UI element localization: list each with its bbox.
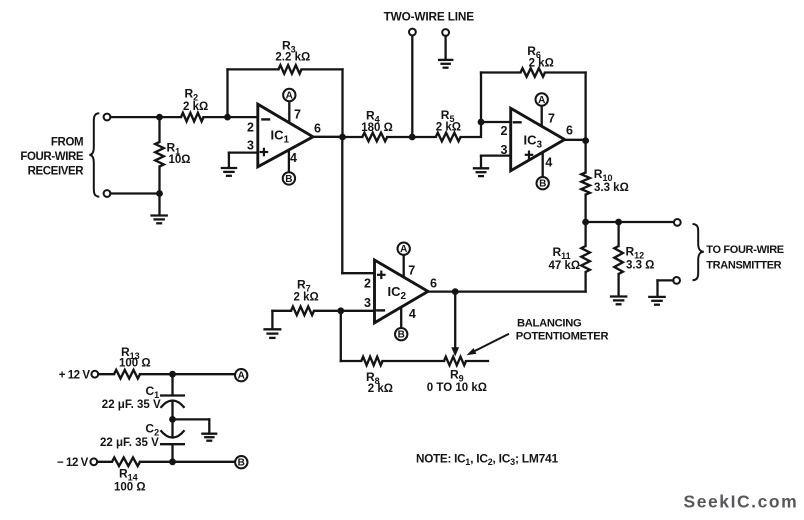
svg-text:6: 6: [314, 121, 321, 135]
svg-text:3.3 Ω: 3.3 Ω: [626, 260, 654, 272]
svg-text:B: B: [238, 458, 245, 469]
svg-text:NOTE: IC1, IC2, IC3; LM741: NOTE: IC1, IC2, IC3; LM741: [416, 451, 558, 467]
ground: [201, 433, 217, 435]
wire: [343, 136, 363, 138]
ground: [221, 167, 238, 169]
resistor R8: [361, 357, 382, 366]
wire: [111, 116, 182, 118]
wire: [480, 73, 482, 123]
node A at IC3: [536, 93, 548, 105]
pin 4 IC2: [400, 308, 402, 329]
wire: [171, 444, 173, 462]
svg-text:− 12 V: − 12 V: [57, 457, 89, 469]
minus sign IC3: [513, 121, 522, 123]
svg-text:A: A: [400, 244, 407, 255]
wire: [586, 221, 674, 223]
svg-text:A: A: [538, 95, 545, 106]
node junction C2 bottom: [169, 458, 176, 465]
node A at IC2: [398, 243, 410, 255]
node B power: [235, 456, 247, 468]
svg-text:FOUR-WIRE: FOUR-WIRE: [20, 151, 84, 163]
node A at IC1: [283, 89, 295, 101]
node junction IC1 inverting input: [224, 114, 231, 121]
terminal transmitter top: [674, 219, 681, 226]
ground: [438, 59, 454, 61]
plus sign IC3: [525, 154, 534, 156]
wire: [617, 274, 619, 296]
wire: [111, 192, 160, 194]
wire: [171, 419, 173, 437]
svg-text:7: 7: [548, 111, 555, 125]
resistor R13: [114, 370, 140, 379]
wire: [428, 290, 586, 292]
svg-text:2 kΩ: 2 kΩ: [294, 291, 319, 303]
svg-text:BALANCING: BALANCING: [517, 317, 582, 329]
node junction two-wire tap: [409, 134, 416, 141]
pin 7 IC2: [403, 255, 405, 277]
wire: [617, 222, 619, 246]
ground: [648, 296, 666, 298]
svg-text:2: 2: [364, 277, 371, 291]
svg-text:4: 4: [290, 151, 297, 165]
svg-text:7: 7: [408, 264, 415, 278]
resistor R4: [362, 133, 387, 142]
wire: [584, 222, 586, 246]
terminal -12V: [90, 458, 97, 465]
svg-text:2 kΩ: 2 kΩ: [529, 58, 554, 70]
svg-text:FROM: FROM: [51, 137, 83, 149]
op-amp IC2: [375, 260, 429, 323]
resistor R6: [521, 68, 546, 77]
wire: [341, 310, 375, 312]
wire: [314, 310, 341, 312]
op-amp IC3: [511, 108, 565, 170]
svg-text:2: 2: [501, 124, 508, 138]
svg-text:6: 6: [430, 277, 437, 291]
wire: [658, 279, 674, 281]
wire: [584, 272, 586, 292]
svg-text:22 μF. 35 V: 22 μF. 35 V: [100, 437, 159, 449]
svg-text:10Ω: 10Ω: [169, 154, 191, 166]
svg-text:0 TO 10 kΩ: 0 TO 10 kΩ: [427, 382, 487, 394]
svg-text:3: 3: [247, 139, 254, 153]
wire: [342, 272, 374, 274]
wiper arrow R9: [451, 347, 459, 356]
svg-text:A: A: [238, 371, 245, 382]
ground: [263, 328, 281, 330]
wire: [173, 418, 210, 420]
resistor R3: [279, 65, 302, 74]
wire: [98, 373, 114, 375]
wire: [228, 68, 279, 70]
node junction IC2 inverting input: [337, 307, 344, 314]
op-amp IC1: [258, 104, 313, 167]
wire: [584, 141, 586, 173]
wire: [383, 360, 445, 362]
wire: [656, 280, 658, 296]
resistor R2: [181, 113, 204, 122]
node B at IC3: [537, 177, 549, 189]
resistor R7: [291, 307, 314, 316]
wire: [481, 121, 511, 123]
svg-text:4: 4: [409, 307, 416, 321]
minus sign IC1: [261, 118, 270, 120]
wire: [302, 68, 343, 70]
ground: [150, 214, 168, 216]
node A power: [235, 369, 247, 381]
wire: [387, 136, 436, 138]
wire: [341, 360, 362, 362]
svg-text:B: B: [539, 179, 546, 190]
resistor R11: [581, 246, 590, 272]
wire: [140, 461, 235, 463]
svg-text:6: 6: [566, 123, 573, 137]
wire: [341, 137, 343, 273]
terminal input bottom: [104, 190, 111, 197]
node junction IC1 output: [339, 134, 346, 141]
pin 7 IC1: [288, 101, 290, 121]
svg-text:TRANSMITTER: TRANSMITTER: [706, 259, 781, 271]
pin 4 IC1: [288, 151, 290, 173]
ground: [473, 167, 489, 169]
node junction output rail right: [615, 219, 622, 226]
wire: [226, 69, 228, 117]
wire: [461, 122, 481, 137]
svg-text:TO FOUR-WIRE: TO FOUR-WIRE: [706, 244, 783, 256]
terminal input top: [104, 114, 111, 121]
wire: [208, 419, 210, 433]
wire: [466, 360, 488, 362]
node junction R1 bottom: [156, 190, 163, 197]
svg-text:7: 7: [294, 107, 301, 121]
wire: [97, 461, 112, 463]
svg-text:+ 12 V: + 12 V: [59, 370, 91, 382]
minus sign IC2: [376, 309, 385, 311]
wire: [584, 195, 586, 222]
svg-text:2 kΩ: 2 kΩ: [436, 121, 461, 133]
node junction output rail left: [582, 219, 589, 226]
node junction IC2 output: [452, 288, 459, 295]
wire: [204, 116, 258, 118]
wire: [171, 403, 173, 420]
wire: [228, 153, 230, 168]
svg-text:100 Ω: 100 Ω: [119, 358, 151, 370]
potentiometer R9: [444, 357, 466, 366]
node junction R1 top: [156, 114, 163, 121]
wire: [229, 151, 258, 153]
pin 7 IC3: [541, 105, 543, 126]
resistor R10: [581, 173, 590, 195]
node B at IC1: [283, 172, 295, 184]
svg-text:SeekIC.com: SeekIC.com: [684, 492, 799, 512]
wire: [411, 36, 413, 138]
wire: [340, 311, 342, 361]
node junction capacitors mid: [169, 416, 176, 423]
node B at IC2: [395, 328, 407, 340]
resistor R14: [112, 458, 140, 467]
terminal transmitter bottom: [673, 277, 680, 284]
svg-text:2: 2: [247, 121, 254, 135]
capacitor C2: [161, 430, 185, 437]
svg-text:3: 3: [501, 143, 508, 157]
callout arrow: [472, 334, 509, 353]
pin 4 IC3: [542, 153, 544, 178]
resistor R5: [436, 133, 461, 142]
node junction IC3 output: [582, 137, 589, 144]
wire: [481, 71, 521, 73]
svg-text:RECEIVER: RECEIVER: [28, 165, 85, 177]
wire: [545, 71, 586, 73]
wire: [313, 136, 343, 138]
resistor R12: [614, 246, 623, 274]
wire: [481, 154, 511, 156]
svg-text:POTENTIOMETER: POTENTIOMETER: [516, 331, 609, 343]
wire: [584, 73, 586, 141]
wire: [140, 373, 235, 375]
svg-text:B: B: [285, 174, 292, 185]
plus sign IC2: [377, 274, 386, 276]
svg-text:47 kΩ: 47 kΩ: [549, 260, 581, 272]
svg-text:22 μF. 35 V: 22 μF. 35 V: [102, 399, 161, 411]
svg-text:100 Ω: 100 Ω: [114, 481, 146, 493]
wire: [565, 139, 586, 141]
resistor R1: [155, 142, 164, 167]
svg-text:180 Ω: 180 Ω: [361, 122, 393, 134]
wire: [158, 167, 160, 194]
svg-text:2.2 kΩ: 2.2 kΩ: [275, 52, 310, 64]
svg-text:3: 3: [364, 296, 371, 310]
svg-text:TWO-WIRE LINE: TWO-WIRE LINE: [384, 9, 475, 23]
svg-text:3.3 kΩ: 3.3 kΩ: [594, 182, 629, 194]
terminal +12V: [91, 371, 98, 378]
svg-text:4: 4: [545, 156, 552, 170]
svg-text:B: B: [398, 330, 405, 341]
wire: [271, 311, 273, 329]
wire: [158, 117, 160, 142]
svg-text:2 kΩ: 2 kΩ: [368, 383, 393, 395]
brace left input: [89, 113, 99, 196]
wire: [444, 36, 446, 60]
wire: [341, 69, 343, 137]
svg-text:2 kΩ: 2 kΩ: [183, 101, 208, 113]
terminal two-wire right: [442, 29, 449, 36]
wire: [158, 194, 160, 216]
wire: [171, 374, 173, 395]
brace transmitter: [693, 224, 704, 280]
terminal two-wire left: [409, 29, 416, 36]
ground: [610, 295, 628, 297]
node junction C1 top: [169, 371, 176, 378]
plus sign IC1: [260, 151, 269, 153]
svg-text:A: A: [286, 90, 293, 101]
wiper wire R9: [454, 292, 456, 348]
wire: [480, 156, 482, 169]
capacitor C1: [160, 394, 185, 396]
node junction IC3 inverting input: [478, 119, 485, 126]
wire: [272, 310, 291, 312]
